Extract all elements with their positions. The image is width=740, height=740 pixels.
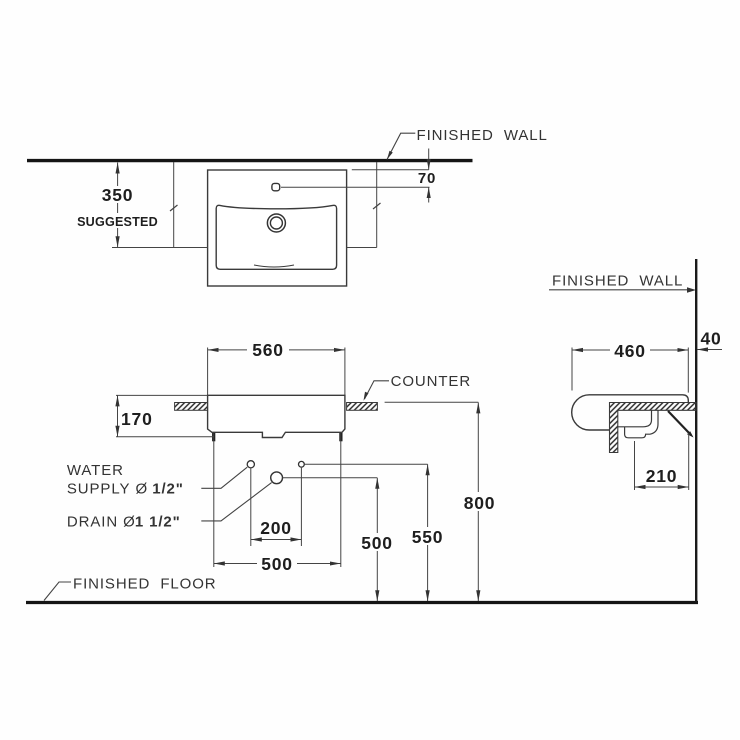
counter left strip (front view) xyxy=(175,403,208,411)
text 460 xyxy=(610,343,650,359)
water supply circle left xyxy=(247,461,254,468)
counter left edge line (top view, jogged) xyxy=(173,162,175,248)
dimension 500 vertical line xyxy=(376,478,378,601)
svg-text:350: 350 xyxy=(102,185,134,205)
text 500 horizontal xyxy=(257,555,297,571)
svg-text:DRAIN Ø1 1/2": DRAIN Ø1 1/2" xyxy=(67,514,181,531)
dimension 550 vertical line xyxy=(427,464,429,601)
svg-text:200: 200 xyxy=(260,518,292,538)
dimension 40 line xyxy=(697,349,722,351)
diagonal pointer to wall xyxy=(668,411,691,435)
dimension 800 vertical line xyxy=(477,402,479,601)
wall tick xyxy=(687,287,696,293)
svg-text:500: 500 xyxy=(361,533,393,553)
text SUGGESTED xyxy=(78,213,158,228)
svg-text:170: 170 xyxy=(121,409,153,429)
dimension 350 vertical line xyxy=(117,163,119,248)
text 500 vertical xyxy=(359,533,396,551)
dimension 170 extension top xyxy=(116,394,208,396)
text 560 xyxy=(247,342,289,358)
counter L-section (side view) xyxy=(610,403,697,453)
faucet hole xyxy=(272,183,280,190)
text 170 xyxy=(120,409,153,427)
text 550 xyxy=(409,527,446,545)
dimension 460 line xyxy=(572,349,688,351)
dimension 210 line xyxy=(635,486,689,488)
dimension 500 horizontal line xyxy=(214,563,341,565)
dimension 70 lower arrow xyxy=(428,187,430,202)
text 70 xyxy=(415,171,439,186)
bowl under counter inner U xyxy=(618,410,652,427)
floor line xyxy=(26,601,698,604)
dimension 210 extension left xyxy=(634,441,636,490)
200 extension lines xyxy=(250,469,252,547)
svg-text:210: 210 xyxy=(646,466,678,486)
leader finished wall top xyxy=(387,133,415,159)
basin rear edge extension line xyxy=(352,169,429,171)
svg-text:70: 70 xyxy=(418,170,436,187)
trap outline xyxy=(625,410,658,438)
svg-text:560: 560 xyxy=(252,340,284,360)
svg-text:550: 550 xyxy=(412,527,444,547)
svg-text:FINISHED FLOOR: FINISHED FLOOR xyxy=(73,576,217,593)
counter top extension line xyxy=(385,401,479,403)
svg-text:WATER: WATER xyxy=(67,462,124,479)
dimension 210 extension right xyxy=(688,433,690,490)
water supply circle right xyxy=(299,461,305,467)
dimension 70 upper arrow xyxy=(428,149,430,170)
dimension 200 line xyxy=(251,539,302,541)
supply leader xyxy=(201,467,247,488)
basin outer rim (top view) xyxy=(208,170,347,286)
svg-text:460: 460 xyxy=(614,341,646,361)
basin feet marks xyxy=(212,433,215,441)
faucet hole leader line xyxy=(281,186,430,188)
svg-text:40: 40 xyxy=(700,329,721,349)
drain leader xyxy=(201,483,271,521)
text 350 xyxy=(99,186,136,203)
text 800 xyxy=(461,492,498,511)
counter leader xyxy=(365,381,390,399)
svg-text:SUPPLY Ø 1/2": SUPPLY Ø 1/2" xyxy=(67,481,184,498)
left extension line below basin xyxy=(213,433,215,567)
dimension 170 extension bottom xyxy=(116,436,214,438)
drain inner circle xyxy=(270,217,282,229)
dimension 170 line xyxy=(117,395,119,436)
bowl inner (top view) xyxy=(216,205,336,269)
basin body (front view) xyxy=(208,395,345,437)
wall line (top view finished wall) xyxy=(27,159,473,162)
supply height line xyxy=(305,463,428,465)
dimension 560 extension lines xyxy=(207,348,209,396)
svg-text:FINISHED WALL: FINISHED WALL xyxy=(417,127,548,144)
drain circle (front view) xyxy=(271,472,283,484)
dimension 460 extension right xyxy=(687,348,689,393)
drain outer circle xyxy=(267,214,285,232)
finished floor leader xyxy=(44,582,71,601)
underline xyxy=(549,289,692,291)
counter right edge line (top view, jogged) xyxy=(376,162,378,248)
bowl bottom inner curve xyxy=(254,265,294,267)
svg-text:COUNTER: COUNTER xyxy=(391,373,471,390)
svg-text:SUGGESTED: SUGGESTED xyxy=(77,215,158,229)
svg-text:800: 800 xyxy=(464,493,496,513)
right extension line below basin xyxy=(340,433,342,567)
side wall line xyxy=(695,259,697,603)
350 reference bottom line xyxy=(112,247,208,249)
drain height line xyxy=(283,477,378,479)
svg-text:FINISHED WALL: FINISHED WALL xyxy=(552,273,683,290)
svg-text:500: 500 xyxy=(261,554,293,574)
counter right strip (front view) xyxy=(347,403,378,411)
basin capsule (side view) xyxy=(572,395,689,430)
dimension 560 line xyxy=(208,349,345,351)
dimension 460 extension left xyxy=(571,348,573,391)
